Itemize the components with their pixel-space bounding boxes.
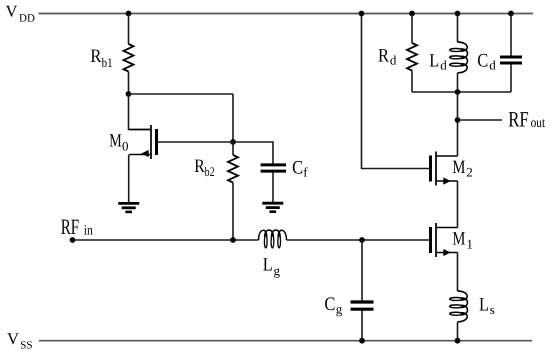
node A dot (R_b1 bottom / M_0 drain) [126, 91, 132, 97]
VSS rail [39, 340, 532, 342]
arrow M_1 source [443, 249, 450, 256]
svg-text:DD: DD [19, 12, 35, 24]
node dot R_b2 bottom [230, 237, 236, 243]
wire M_0 gate to node B [157, 141, 234, 143]
node dot R_b1 top on VDD [126, 11, 132, 17]
svg-text:g: g [274, 263, 281, 278]
svg-text:d: d [489, 57, 496, 72]
node dot R_d top on VDD [409, 11, 415, 17]
wire R_b2 top lead [232, 142, 234, 155]
svg-text:b2: b2 [205, 164, 215, 179]
wire C_f to ground [272, 173, 274, 203]
label M_1 [452, 229, 473, 252]
label R_d [378, 46, 397, 68]
label L_g [263, 255, 281, 278]
node dot L_d top on VDD [455, 11, 461, 17]
svg-text:V: V [7, 329, 19, 348]
wire R_b2 bottom lead [232, 183, 234, 241]
svg-text:1: 1 [466, 236, 473, 251]
wire node B to C_f [233, 142, 273, 164]
wire M_0 source down [128, 155, 130, 203]
node dot C_g tap [359, 237, 365, 243]
svg-text:0: 0 [122, 138, 129, 153]
arrow M_0 source [141, 150, 148, 157]
svg-text:M: M [452, 157, 465, 178]
label C_g [324, 294, 342, 316]
node dot M_2 gate feed on VDD [359, 11, 365, 17]
wire VDD to M_2 gate [362, 14, 430, 169]
wire R_d top lead [411, 14, 413, 44]
svg-text:C: C [477, 50, 488, 71]
wire M_0 drain [129, 94, 152, 130]
node B dot (gate divider node) [230, 139, 236, 145]
transistor M_0 (mirrored, gate on right) [130, 125, 157, 159]
wire C_d top lead [510, 14, 512, 56]
wire R_b1 top lead [128, 14, 130, 45]
label RF_out [508, 106, 545, 131]
wire C_d bottom lead [510, 65, 512, 93]
label R_b1 [90, 46, 112, 70]
label R_b2 [194, 156, 214, 179]
inductor L_g [259, 230, 287, 248]
label C_f [292, 157, 308, 179]
svg-text:R: R [90, 46, 101, 67]
label RF_in [61, 214, 93, 239]
svg-text:d: d [390, 52, 397, 67]
wire tank node down to RF_out node [457, 92, 459, 120]
svg-text:2: 2 [466, 165, 473, 180]
svg-text:L: L [263, 255, 273, 276]
node dot tank bottom [455, 89, 461, 95]
wire L_g to M_1 gate [287, 239, 430, 241]
capacitor C_f [261, 165, 286, 171]
VDD rail [39, 13, 534, 15]
svg-text:C: C [324, 294, 335, 315]
node dot C_d top on VDD [508, 11, 514, 17]
inductor L_s [450, 291, 468, 322]
node dot L_s bottom on VSS [455, 338, 461, 344]
svg-text:s: s [490, 302, 495, 317]
node RF_out dot [455, 117, 461, 123]
ground under C_f [262, 203, 283, 212]
node dot C_g bottom on VSS [359, 338, 365, 344]
resistor R_b2 [228, 155, 238, 183]
svg-text:V: V [6, 1, 18, 20]
svg-text:RF: RF [61, 214, 79, 239]
label C_d [477, 50, 496, 72]
svg-text:b1: b1 [102, 55, 113, 70]
capacitor C_g [351, 302, 374, 309]
wire RF_in to L_g [73, 239, 259, 241]
inductor L_d [450, 42, 468, 73]
wire C_g bottom lead [361, 311, 363, 341]
RF_in terminal dot [70, 237, 76, 243]
svg-text:RF: RF [508, 106, 529, 131]
wire RF_out stub [458, 119, 503, 121]
resistor R_d [407, 43, 417, 71]
wire L_d bottom lead [457, 73, 459, 92]
svg-text:L: L [429, 50, 439, 71]
capacitor C_d [500, 57, 522, 63]
svg-text:L: L [479, 294, 489, 315]
svg-text:in: in [84, 223, 93, 238]
resistor R_b1 [124, 44, 134, 72]
wire C_g top lead [361, 240, 363, 301]
svg-text:d: d [440, 57, 447, 72]
svg-text:out: out [531, 116, 546, 131]
svg-text:M: M [109, 131, 122, 152]
svg-text:R: R [194, 156, 205, 177]
label L_s [479, 294, 495, 317]
wire L_d top lead [457, 14, 459, 43]
svg-text:M: M [452, 229, 465, 250]
wire L_s bottom to VSS [457, 322, 459, 341]
label M_2 [452, 157, 472, 180]
wire down to gate node [232, 94, 234, 142]
wire node A to divider column [129, 93, 234, 95]
wire M_1 source down to L_s [457, 253, 459, 292]
arrow M_2 source [443, 177, 450, 184]
wire M_2 source to M_1 drain [457, 181, 459, 228]
svg-text:f: f [303, 165, 308, 180]
ground under M_0 [118, 203, 139, 212]
svg-text:C: C [292, 157, 303, 178]
label L_d [429, 50, 447, 72]
svg-text:g: g [336, 302, 343, 317]
svg-text:SS: SS [20, 340, 32, 352]
transistor M_1 [431, 223, 458, 257]
svg-text:R: R [378, 46, 389, 67]
wire tank bottom bus [412, 91, 511, 93]
wire R_d bottom lead [411, 71, 413, 93]
wire R_b1 bottom lead [128, 72, 130, 95]
transistor M_2 [431, 152, 458, 186]
label M_0 [109, 131, 128, 154]
wire M_2 drain up to RF_out node [457, 120, 459, 156]
